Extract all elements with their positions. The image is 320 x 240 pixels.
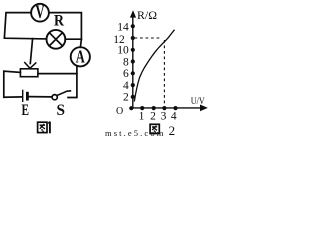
svg-text:10: 10 — [117, 45, 129, 57]
svg-text:O: O — [116, 106, 123, 117]
svg-text:2: 2 — [169, 123, 176, 138]
wire top-right (from voltmeter to right vertical down to ammeter) — [49, 13, 82, 48]
wire rheostat left to bottom-left corner — [4, 71, 22, 97]
svg-text:4: 4 — [171, 111, 177, 123]
svg-text:2: 2 — [123, 92, 129, 104]
label R — [54, 13, 64, 30]
svg-text:14: 14 — [117, 22, 129, 34]
origin dot — [129, 106, 133, 110]
dashed guide at U=3 — [163, 40, 165, 107]
ammeter A — [71, 47, 90, 67]
svg-text:4: 4 — [123, 80, 129, 92]
label S — [57, 102, 66, 119]
label 图1 — [38, 122, 50, 134]
svg-text:S: S — [57, 102, 66, 119]
svg-text:8: 8 — [123, 56, 129, 68]
svg-text:3: 3 — [161, 111, 167, 123]
label 图 2 — [150, 123, 175, 138]
wire top-left (left vertical + top segment to voltmeter) — [4, 13, 31, 38]
rheostat body — [20, 69, 38, 77]
svg-text:R: R — [54, 13, 64, 30]
R-U curve — [134, 30, 174, 102]
rheostat wiper arrow — [25, 39, 36, 69]
x tick labels — [139, 111, 177, 123]
svg-text:1: 1 — [139, 111, 145, 123]
svg-text:A: A — [76, 47, 85, 67]
wire battery to switch — [29, 96, 52, 98]
axis label R/Ω — [137, 8, 157, 22]
x-axis U/V — [131, 105, 208, 112]
svg-text:V: V — [36, 2, 45, 23]
dashed guide at R=12 — [135, 37, 163, 39]
switch S — [52, 91, 70, 100]
axis label U/V — [191, 97, 205, 107]
y tick labels — [113, 22, 129, 104]
origin label O — [116, 106, 123, 117]
svg-text:E: E — [22, 102, 30, 119]
svg-text:R/Ω: R/Ω — [137, 8, 157, 22]
y-axis R/Ω — [130, 10, 136, 108]
svg-text:m s t . e 5 . c o m: m s t . e 5 . c o m — [105, 128, 164, 138]
svg-text:U/V: U/V — [191, 97, 205, 107]
voltmeter V — [31, 2, 49, 23]
label E — [22, 102, 30, 119]
x tick dots — [140, 106, 178, 110]
wire lamp branch left — [4, 38, 46, 39]
svg-text:6: 6 — [123, 68, 129, 80]
wire rheostat right to junction — [38, 73, 77, 75]
svg-text:2: 2 — [150, 111, 156, 123]
faint watermark — [105, 128, 164, 138]
battery E — [23, 90, 28, 101]
wire ammeter down to bottom corner and left to switch contact — [68, 67, 77, 98]
wire lamp to right vertical — [65, 38, 81, 40]
lamp L (labelled R) — [47, 30, 66, 49]
y tick dots — [131, 24, 135, 99]
